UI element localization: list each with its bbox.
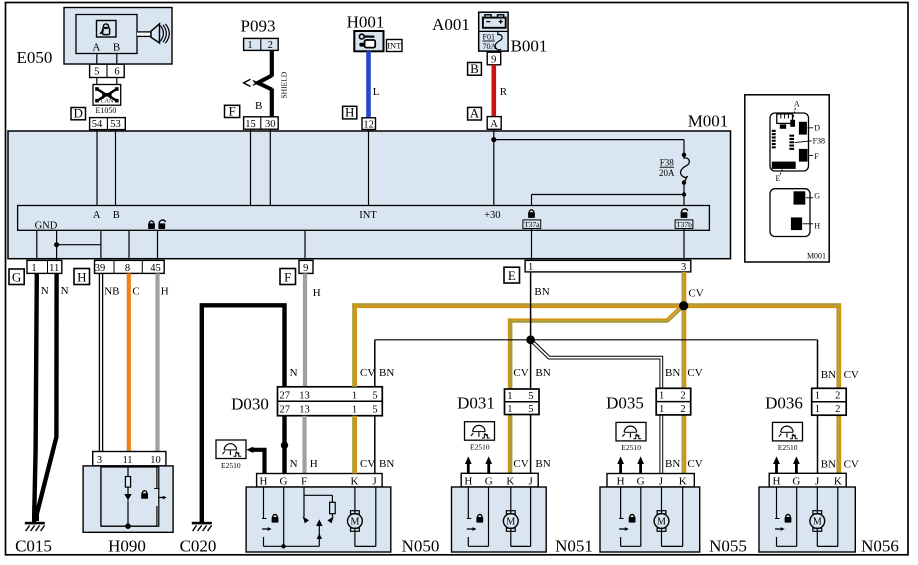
svg-text:K: K: [351, 475, 359, 487]
svg-text:1: 1: [815, 391, 820, 402]
svg-text:CV: CV: [687, 458, 702, 470]
svg-text:B: B: [255, 100, 262, 112]
svg-text:E050: E050: [17, 48, 53, 67]
svg-text:BN: BN: [379, 458, 394, 470]
connector D035: [606, 388, 691, 415]
wire N050 pin H to E2510 with arrow: [246, 447, 264, 474]
svg-text:11: 11: [49, 263, 59, 274]
wire pin 15 inside M001: [250, 129, 252, 205]
svg-text:CV: CV: [688, 288, 703, 300]
svg-text:5: 5: [372, 391, 377, 402]
svg-text:J: J: [372, 475, 377, 487]
wire pin 9 stub: [304, 230, 306, 260]
svg-text:J: J: [659, 475, 664, 487]
node H box lower: [74, 269, 90, 285]
svg-text:G: G: [280, 475, 288, 487]
svg-text:D030: D030: [231, 395, 269, 414]
svg-text:3: 3: [681, 262, 686, 273]
module M001 body computer: [8, 112, 731, 259]
svg-text:E2510: E2510: [778, 443, 798, 452]
svg-text:CV: CV: [844, 459, 859, 471]
M001 connector legend box: [745, 95, 829, 262]
lamp node E2510 at N051: [465, 422, 495, 452]
N056 internal motor M: [810, 487, 838, 546]
wire CV drop to D030: [352, 303, 357, 387]
svg-text:E1050: E1050: [96, 106, 117, 115]
T37a lock output: [523, 210, 541, 229]
shield branch arrow symbol: [244, 79, 258, 86]
svg-text:B: B: [113, 41, 120, 53]
N055 internal motor M: [654, 487, 683, 546]
labels above D036: [821, 369, 859, 381]
svg-text:H: H: [814, 221, 820, 230]
svg-text:T37a: T37a: [524, 220, 540, 229]
svg-text:8: 8: [125, 263, 130, 274]
junction BN node: [526, 335, 535, 344]
svg-text:2: 2: [835, 391, 840, 402]
svg-text:NB: NB: [104, 285, 119, 297]
labels above N056: [821, 459, 859, 471]
svg-text:H: H: [464, 475, 472, 487]
component N056 door lock motor: [759, 473, 855, 552]
wire BN drop to D036: [817, 340, 819, 389]
N051 internal motor M: [503, 487, 530, 546]
ground C015: [15, 522, 52, 556]
svg-text:B001: B001: [511, 37, 548, 56]
svg-text:BN: BN: [534, 286, 549, 298]
svg-text:F: F: [814, 152, 819, 161]
svg-text:K: K: [834, 475, 842, 487]
svg-text:5: 5: [528, 404, 533, 415]
svg-text:E: E: [508, 268, 516, 283]
component E050 antenna module: [17, 8, 172, 68]
wire CV D030 to N050 pin K: [352, 416, 357, 474]
P093 pin box 15 30: [244, 117, 279, 130]
svg-text:A: A: [490, 119, 498, 130]
svg-text:H: H: [260, 475, 268, 487]
svg-text:27: 27: [280, 391, 291, 402]
wire L blue from H001: [366, 51, 371, 118]
svg-text:BN: BN: [821, 369, 836, 381]
component N051 door lock motor: [452, 473, 547, 552]
svg-text:P093: P093: [241, 17, 276, 36]
M001 pin box A: [487, 117, 501, 130]
CAN network node E1050: [93, 85, 121, 106]
svg-text:F: F: [301, 475, 307, 487]
arrows N051 pins H G to E2510: [465, 456, 492, 473]
svg-text:9: 9: [303, 263, 308, 274]
svg-text:E: E: [776, 174, 781, 183]
svg-text:2: 2: [835, 404, 840, 415]
svg-text:5: 5: [372, 405, 377, 416]
svg-text:F01: F01: [483, 33, 495, 42]
wire pin A +30 feed inside M001: [491, 129, 686, 205]
wire pin 45 stub: [157, 230, 159, 260]
wire T37a to pin 1: [531, 229, 533, 261]
E050 pin box 5 6: [90, 64, 125, 77]
svg-text:E2510: E2510: [470, 442, 490, 451]
fuse F01 70A in B001: [483, 32, 503, 51]
svg-text:1: 1: [507, 404, 512, 415]
svg-text:20A: 20A: [659, 168, 675, 178]
wire NB twisted pair to H090: [99, 273, 102, 451]
wire pin 8 stub: [128, 230, 130, 260]
node D box: [71, 106, 86, 121]
svg-text:CV: CV: [513, 458, 528, 470]
wire H grey to H090: [155, 273, 159, 451]
wire E050 pin A lead: [96, 54, 98, 65]
svg-text:N: N: [290, 367, 298, 379]
connector D031: [457, 389, 539, 415]
svg-text:N056: N056: [861, 537, 899, 556]
E050 pin box 54 53: [90, 118, 126, 131]
wire BN D035 to N055 pin J: [659, 415, 663, 474]
wire N ground pin 11 to C015: [37, 273, 57, 521]
svg-text:3: 3: [97, 455, 102, 466]
labels above N050: [290, 458, 395, 470]
M001 inner logic box: [18, 206, 710, 231]
svg-text:M001: M001: [807, 251, 826, 260]
component H001 interior lamp switch: [347, 13, 385, 52]
svg-text:1: 1: [247, 40, 252, 51]
lamp node E2510 at N055: [616, 422, 646, 452]
svg-text:J: J: [528, 475, 533, 487]
svg-text:CV: CV: [513, 367, 528, 379]
svg-text:45: 45: [150, 263, 161, 274]
wire H grey M001 pin9 to D030: [303, 273, 307, 386]
svg-text:H001: H001: [347, 13, 385, 32]
wire CV branch to D031: [508, 304, 684, 389]
svg-text:2: 2: [268, 40, 273, 51]
svg-text:C020: C020: [180, 537, 217, 556]
svg-text:G: G: [12, 270, 21, 285]
labels above N055: [665, 458, 703, 470]
arrows N055 pins H G to E2510: [617, 456, 644, 473]
svg-text:R: R: [500, 86, 508, 98]
wire BN horizontal distribution: [375, 339, 818, 341]
svg-text:13: 13: [299, 405, 310, 416]
svg-text:N: N: [61, 285, 69, 297]
svg-text:T37b: T37b: [676, 220, 692, 229]
node H box: [343, 105, 357, 120]
wire pin 30 inside M001: [269, 129, 271, 205]
svg-text:M001: M001: [688, 112, 729, 131]
N050 internal lock switch: [262, 487, 284, 546]
svg-text:D036: D036: [765, 394, 803, 413]
wire BN white branch to D035: [531, 340, 662, 389]
svg-text:1: 1: [659, 404, 664, 415]
svg-text:2: 2: [680, 404, 685, 415]
svg-text:F38: F38: [660, 157, 675, 167]
N051 internal lock switch: [467, 487, 489, 546]
svg-text:GND: GND: [35, 221, 58, 232]
svg-text:CV: CV: [687, 367, 702, 379]
H090 internal resistor branch: [101, 466, 157, 529]
svg-text:A001: A001: [432, 15, 470, 34]
svg-text:H: H: [773, 475, 781, 487]
svg-text:INT: INT: [359, 210, 377, 221]
svg-text:J: J: [815, 475, 820, 487]
svg-text:B: B: [113, 210, 120, 221]
lock icon closed internal: [148, 221, 155, 229]
N055 internal lock switch: [619, 487, 641, 546]
svg-text:A: A: [93, 210, 101, 221]
svg-text:10: 10: [150, 455, 161, 466]
M001 pin box 9: [299, 260, 313, 274]
component N055 door lock motor: [600, 474, 700, 553]
svg-text:+30: +30: [484, 210, 500, 221]
svg-text:BN: BN: [535, 458, 550, 470]
svg-text:A: A: [92, 41, 100, 53]
svg-text:N055: N055: [709, 537, 747, 556]
wire BN drop to D030: [374, 340, 376, 387]
wire T37b to pin 3: [683, 229, 685, 261]
svg-text:D: D: [74, 106, 83, 121]
wire colour labels below M001: [41, 285, 704, 300]
wire E050 pin B lead: [116, 54, 118, 65]
node A box: [468, 106, 482, 121]
svg-text:1: 1: [352, 391, 357, 402]
labels above D035: [665, 367, 703, 379]
svg-text:53: 53: [110, 119, 121, 130]
svg-text:G: G: [792, 475, 800, 487]
svg-text:CAN: CAN: [101, 99, 114, 105]
wire BN from M001 pin 1: [530, 272, 532, 389]
svg-text:H: H: [77, 270, 86, 285]
H001 pin box 12: [362, 118, 376, 131]
connector D036: [765, 388, 846, 415]
svg-text:SHIELD: SHIELD: [280, 71, 289, 98]
wire P093 shielded cable: [258, 50, 272, 116]
wire pin 53 inside M001: [115, 130, 117, 206]
svg-text:F38: F38: [813, 137, 825, 146]
lamp node E2510 at N056: [773, 422, 803, 452]
svg-text:E2510: E2510: [621, 443, 641, 452]
svg-text:CV: CV: [844, 369, 859, 381]
svg-text:BN: BN: [665, 367, 680, 379]
svg-text:N051: N051: [555, 537, 593, 556]
svg-text:15: 15: [245, 119, 256, 130]
svg-text:L: L: [373, 86, 380, 98]
svg-text:6: 6: [114, 67, 119, 78]
svg-text:N: N: [41, 285, 49, 297]
svg-text:D031: D031: [457, 394, 495, 413]
H090 internal lock switch contact: [141, 466, 167, 526]
arrows N056 pins H G to E2510: [773, 456, 800, 473]
svg-text:11: 11: [122, 455, 132, 466]
fuse F38 20A: [532, 155, 690, 206]
N050 internal changeover contact with resistor: [281, 487, 335, 549]
component H090 lock switch: [83, 452, 173, 533]
svg-text:C: C: [132, 285, 139, 297]
node F box: [225, 103, 240, 118]
M001 pin box 39 8 45: [95, 260, 165, 274]
svg-text:5: 5: [528, 391, 533, 402]
svg-text:CV: CV: [360, 367, 375, 379]
svg-text:F: F: [228, 103, 235, 118]
M001 pin box 1 11: [27, 260, 62, 274]
svg-text:H: H: [617, 475, 625, 487]
wire N from C020 to D030: [202, 305, 285, 522]
svg-text:54: 54: [92, 119, 103, 130]
svg-text:27: 27: [280, 405, 291, 416]
junction CV node: [679, 301, 688, 310]
wire CV drop to D036: [836, 303, 841, 388]
svg-text:INT: INT: [387, 40, 402, 50]
wire BN D030 to N050 pin J: [374, 416, 376, 474]
wire CV D031 to N051 pin K: [508, 415, 513, 474]
svg-text:H: H: [313, 287, 321, 299]
connector D030: [231, 387, 382, 416]
svg-text:E2510: E2510: [221, 461, 241, 470]
wire R red battery feed: [491, 65, 496, 117]
svg-text:1: 1: [815, 404, 820, 415]
B001 pin box 9: [487, 52, 501, 65]
svg-text:70A: 70A: [483, 42, 497, 51]
wire CV D035 to N055 pin K: [682, 415, 687, 474]
wire H grey D030 to N050 pin F: [302, 416, 306, 474]
svg-text:A: A: [794, 100, 800, 109]
labels above N051: [513, 458, 550, 470]
svg-text:1: 1: [31, 263, 36, 274]
svg-text:1: 1: [507, 391, 512, 402]
svg-text:30: 30: [265, 119, 276, 130]
GND net wires below inner box: [37, 230, 101, 260]
svg-text:C015: C015: [15, 537, 52, 556]
N056 internal lock switch: [775, 487, 797, 546]
svg-text:B: B: [470, 61, 479, 76]
T37b lock output: [675, 209, 693, 229]
svg-text:1: 1: [352, 405, 357, 416]
svg-text:5: 5: [94, 67, 99, 78]
svg-text:G: G: [814, 191, 820, 200]
wire pin 5 to CAN node: [96, 78, 98, 85]
ground C020: [180, 522, 217, 556]
node E box: [504, 267, 520, 283]
node B box: [468, 61, 482, 76]
wire CV D036 to N056 pin K: [836, 415, 841, 473]
wire BN D031 to N051 pin J: [530, 415, 532, 474]
svg-text:D035: D035: [606, 394, 644, 413]
N050 internal motor M: [348, 487, 376, 546]
svg-text:BN: BN: [535, 367, 550, 379]
wire CV orange-green main feed from M001 pin 3: [682, 272, 687, 388]
E050 speaker / buzzer symbol: [137, 24, 169, 43]
svg-text:1: 1: [528, 262, 533, 273]
svg-text:39: 39: [95, 263, 106, 274]
svg-text:N050: N050: [402, 537, 440, 556]
wire N D030 to N050 pin G: [281, 416, 288, 474]
svg-text:N: N: [290, 458, 298, 470]
svg-text:1: 1: [659, 391, 664, 402]
node F box lower: [280, 269, 296, 285]
wire N ground pin 1 to C015: [34, 273, 37, 522]
node G box: [9, 269, 24, 285]
svg-text:H: H: [161, 285, 169, 297]
svg-text:K: K: [679, 475, 687, 487]
wire pin 12 INT inside M001: [368, 130, 370, 206]
svg-text:D: D: [814, 123, 820, 132]
svg-text:BN: BN: [665, 458, 680, 470]
svg-text:BN: BN: [379, 367, 394, 379]
wire pin 6 to CAN node: [116, 78, 118, 85]
svg-text:CV: CV: [360, 458, 375, 470]
wire BN D036 to N056 pin J: [817, 415, 819, 473]
svg-text:12: 12: [363, 119, 374, 130]
M001 pin box 1 3: [525, 260, 691, 272]
INT function box: [387, 40, 403, 52]
svg-text:13: 13: [299, 391, 310, 402]
svg-text:A: A: [470, 106, 480, 121]
labels above D030: [290, 367, 395, 379]
labels above D031: [513, 367, 550, 379]
lamp node E2510 at N050: [216, 440, 246, 470]
lock icon open internal: [158, 220, 165, 229]
svg-text:BN: BN: [821, 459, 836, 471]
svg-text:H: H: [310, 458, 318, 470]
wire C orange to H090: [127, 273, 131, 451]
svg-text:K: K: [506, 475, 514, 487]
component N050 driver door lock motor assembly: [246, 474, 391, 553]
svg-text:9: 9: [491, 54, 496, 65]
svg-text:G: G: [485, 475, 493, 487]
svg-text:H: H: [345, 105, 354, 120]
svg-text:H090: H090: [108, 537, 146, 556]
svg-text:2: 2: [680, 391, 685, 402]
wire CV main horizontal distribution: [352, 303, 838, 308]
component P093 diagnostic connector: [241, 17, 279, 52]
svg-text:F: F: [284, 270, 291, 285]
component A001 battery: [432, 12, 508, 51]
wire pin 54 inside M001: [96, 130, 98, 206]
svg-text:G: G: [637, 475, 645, 487]
